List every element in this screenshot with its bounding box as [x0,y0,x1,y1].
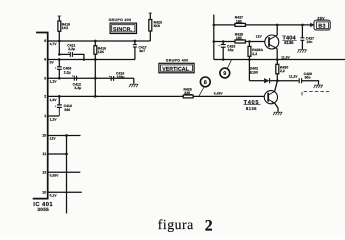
svg-text:1K2: 1K2 [62,26,68,30]
svg-text:GRUPO 400: GRUPO 400 [166,59,189,63]
label 28V [317,17,325,21]
pin 11 wire [48,153,67,155]
svg-text:3055: 3055 [37,207,49,212]
svg-text:3,3µ: 3,3µ [74,86,81,90]
node C411 right on pin6 [83,58,86,61]
svg-text:2,2: 2,2 [280,69,285,73]
capacitor C426 [298,78,300,83]
node C411/pin8 corner [58,53,61,56]
wire T404 collector [276,25,278,36]
IC 401 label [33,201,53,212]
capacitor C416 [110,76,112,81]
resistor R428 [235,40,245,43]
wire node8 pointer [199,87,204,96]
capacitor C412 [73,76,75,81]
svg-text:2: 2 [205,217,213,234]
wire R428A down to diode line [248,60,250,81]
wire R415 down to C411 [58,41,60,54]
node R428A top [248,40,251,43]
label 11,6V [281,55,290,59]
svg-text:13: 13 [42,170,46,174]
resistor R428A [248,42,250,47]
svg-text:10: 10 [42,190,46,194]
supply box B3 [314,20,330,30]
svg-text:8: 8 [44,39,46,43]
pin 13 label [42,170,59,177]
pin 10 wire [48,191,82,193]
svg-text:B3: B3 [318,24,326,30]
node diode line junction [276,79,279,82]
svg-text:figura: figura [158,217,194,232]
svg-text:10n: 10n [306,40,312,44]
pin 1 wire [48,115,59,117]
svg-text:12V: 12V [256,35,263,39]
svg-text:2,2µ: 2,2µ [64,70,71,74]
node collector/rail [276,24,279,27]
node C423 top [222,40,225,43]
node 9 circle [220,68,230,78]
svg-text:50n: 50n [305,75,311,79]
node C427/rail [301,24,304,27]
svg-text:0,1V: 0,1V [50,194,58,198]
pin 1 label [44,114,57,121]
wire R416 bus down to pin2 [94,60,96,97]
svg-text:5K6: 5K6 [154,24,160,28]
node bus/pin2 [94,95,97,98]
svg-text:SINCR.: SINCR. [113,27,133,33]
wire top feed vertical x=213.8 [213,15,215,60]
svg-text:0,55V: 0,55V [50,173,60,177]
dashed block outline [302,92,329,96]
svg-text:1,2V: 1,2V [50,80,58,84]
pin 6 label [44,58,54,65]
wire node9 pointer [227,60,231,69]
resistor R423 [149,13,151,20]
node R415 vert on pin6 [58,58,61,61]
svg-text:560: 560 [64,108,70,112]
node C423 bottom [222,58,225,61]
capacitor C427 [301,25,303,38]
resistor R427 [235,23,245,26]
wire pin5 corner down [133,78,135,84]
resistor R425 [183,95,193,98]
node rail/x213.8 [213,24,216,27]
node C417/pin8 [134,40,137,43]
ground for C416 [129,84,138,87]
node 8 circle [200,77,210,87]
svg-text:15: 15 [42,134,46,138]
pin 2 label [44,95,57,102]
svg-text:4n7: 4n7 [139,49,145,53]
wire vertical bus x=66.5 pins 15/11 [66,136,68,214]
node C410/pin2 [58,95,61,98]
svg-text:4,7V: 4,7V [50,42,58,46]
resistor R430 [276,60,278,65]
pin 15 wire [48,135,81,137]
wire T404 emitter [276,49,278,60]
diode D402 [249,80,264,82]
svg-text:10µ: 10µ [228,48,234,52]
svg-text:0,43V: 0,43V [214,92,224,96]
node C409/pin5 [58,77,61,80]
pin 5 wire [48,77,134,79]
label 0,43V [214,92,224,96]
pin 8 label [44,39,57,46]
resistor R415 [58,16,60,21]
svg-text:2,2µ: 2,2µ [68,47,75,51]
svg-text:5: 5 [44,76,46,80]
pin 6 wire [48,59,136,61]
ground for C426 [314,85,323,88]
svg-text:8136: 8136 [246,106,257,111]
svg-text:E150: E150 [250,71,258,75]
svg-text:12V: 12V [50,137,57,141]
node R428A rail [248,58,251,61]
svg-text:8: 8 [204,80,207,86]
transistor T405 [264,91,277,104]
svg-text:1: 1 [44,114,46,118]
svg-text:6: 6 [44,58,46,62]
capacitor C411 [59,53,70,55]
wire T405 emitter to ground [275,103,278,112]
wire diode line to C426 [277,80,298,82]
svg-text:2,2: 2,2 [252,52,257,56]
capacitor C423 [222,42,224,45]
pin 8 wire [48,40,151,42]
capacitor C417 [134,41,136,45]
svg-text:9: 9 [223,71,226,77]
capacitor C409 [58,60,60,67]
svg-text:0V: 0V [50,60,55,64]
transistor T404 [265,35,279,49]
svg-text:8136: 8136 [284,40,294,45]
node R415/pin8 [58,40,61,43]
node pin11 junction [65,153,68,156]
node pin15 junction [65,134,68,137]
label 12V [256,35,263,39]
wire base line y=41.5 [214,41,265,43]
svg-text:VERTICAL: VERTICAL [162,67,189,73]
wire T405 collector [275,81,278,92]
pin 15 label [42,134,56,141]
ground for C427 [297,50,306,53]
node emitter/rail [276,58,279,61]
GRUPO 400 VERTICAL box [166,59,189,63]
pin 13 wire [48,171,81,173]
pin 10 label [42,190,57,197]
IC U401 left edge [33,33,48,199]
svg-text:GRUPO 400: GRUPO 400 [109,18,132,22]
GRUPO 400 SINCR box [109,18,132,22]
wire emitter rail y=59.5 [214,59,345,61]
svg-text:11,2V: 11,2V [289,75,298,79]
node R416/pin6 [94,58,97,61]
capacitor C410 [58,96,60,105]
svg-text:11,6V: 11,6V [281,55,290,59]
label 11,2V [289,75,298,79]
node bus/pin5 [94,77,97,80]
wire B3 rail y=24.9 [214,24,311,26]
ground for T405 [273,112,282,115]
resistor R416 [94,41,96,46]
pin 5 label [44,76,57,83]
node R416/pin8 [94,40,97,43]
svg-text:11: 11 [42,152,46,156]
svg-text:2: 2 [44,95,46,99]
node base/x213.8 [213,40,216,43]
pin 11 label [42,152,46,156]
svg-text:1,2V: 1,2V [50,117,58,121]
svg-text:12K: 12K [98,50,105,54]
svg-text:100µ: 100µ [117,75,125,79]
pin 2 wire (to T405 base) [48,95,265,97]
svg-text:1,8V: 1,8V [50,98,58,102]
wire arrow into B3 [310,23,314,27]
